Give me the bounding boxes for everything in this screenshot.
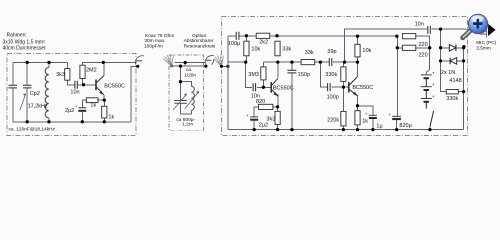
svg-text:3,5mm: 3,5mm <box>476 45 491 51</box>
wire ground column left of main box <box>227 36 229 130</box>
wire 100p to stage3 base <box>332 86 349 88</box>
svg-text:1/20n: 1/20n <box>184 72 196 78</box>
svg-text:1k: 1k <box>108 115 114 121</box>
wire 330k out right lead <box>458 91 463 93</box>
wire tank tap down <box>180 66 182 82</box>
svg-text:220: 220 <box>419 42 428 48</box>
wire top output line <box>345 29 427 62</box>
resistor R 3k3 stage1 <box>65 69 70 81</box>
transistor Q1 BC550C <box>95 80 97 91</box>
diode D2 1N4148 <box>450 58 457 65</box>
svg-text:MIC (PC): MIC (PC) <box>476 40 496 46</box>
wire main bottom rail <box>228 129 464 131</box>
svg-text:10k: 10k <box>251 46 260 52</box>
svg-text:Koax 75 Ohm: Koax 75 Ohm <box>145 33 174 39</box>
resistor R 820 emitter <box>258 104 273 109</box>
wire coax D center to ground column <box>222 65 229 67</box>
svg-text:2µ2: 2µ2 <box>259 123 268 129</box>
transistor Q2 BC550C <box>270 82 272 93</box>
coax connector C at option box exit <box>204 56 214 68</box>
wire 220-1 right corner down <box>416 36 430 48</box>
coax connector D at main box entry (shield fan) <box>214 55 224 66</box>
jack connector MIC 3.5mm <box>465 29 488 37</box>
svg-text:Cp2: Cp2 <box>30 91 40 97</box>
svg-text:33k: 33k <box>282 46 291 52</box>
wire tank top joint <box>181 82 192 101</box>
svg-text:+: + <box>432 83 435 88</box>
wire tank bottom joint <box>181 104 192 114</box>
svg-text:1µ: 1µ <box>376 123 383 129</box>
wire 820 left to 2u2 <box>254 107 258 130</box>
capacitor 2u2 electrolytic stage2 <box>250 116 258 118</box>
wire output column <box>441 29 447 92</box>
svg-text:100µ: 100µ <box>228 41 241 47</box>
svg-text:Abstimmbarer: Abstimmbarer <box>184 38 214 44</box>
capacitor 10n stage1 <box>75 81 77 89</box>
svg-text:+: + <box>432 95 435 100</box>
wire stage2 collector line <box>263 61 301 63</box>
arrow variable capacitor <box>173 95 186 110</box>
wire coax shield riser <box>131 66 136 122</box>
svg-text:Resonanzkreis: Resonanzkreis <box>184 43 216 49</box>
wire Q2 collector <box>277 62 279 78</box>
wire antenna top rail <box>13 61 68 63</box>
svg-text:220: 220 <box>419 53 428 59</box>
option box (dash-dot border) <box>169 55 203 131</box>
wire 330k feedback leads <box>342 62 344 87</box>
capacitor C1 <box>9 85 17 88</box>
node coax D dots <box>220 65 223 68</box>
svg-text:ca.: ca. <box>186 68 192 73</box>
wire 3M3 leads <box>262 62 264 87</box>
wire 33k horizontal right to node A <box>315 61 329 63</box>
svg-text:100pF/m: 100pF/m <box>144 43 163 49</box>
annotation Rahmen text block <box>3 33 47 52</box>
node dots main box <box>245 34 248 37</box>
svg-text:30m max.: 30m max. <box>144 38 165 44</box>
svg-text:2M2: 2M2 <box>86 68 97 74</box>
inductor L1 antenna coil <box>45 68 49 118</box>
svg-text:Option:: Option: <box>192 33 207 39</box>
svg-text:3x10 Wdg 1,5 mm²: 3x10 Wdg 1,5 mm² <box>3 39 46 45</box>
svg-text:BC550C: BC550C <box>273 85 294 91</box>
svg-text:3k3: 3k3 <box>56 72 65 78</box>
svg-text:1k: 1k <box>362 119 368 125</box>
wire input line to stage2 <box>228 62 252 87</box>
arrow variable inductor <box>185 92 199 109</box>
wire 10k2 leads <box>357 36 359 62</box>
node dot on border near jack <box>462 45 465 48</box>
icon magnifier zoom-in <box>463 14 489 38</box>
capacitor 10n stage2 input <box>253 83 256 91</box>
wire 2k2 to V+ rail <box>270 35 277 37</box>
main receiver box (dash-dot border) <box>221 16 467 135</box>
wire Q3 emitter node <box>357 95 359 130</box>
svg-text:40cm Durchmesser: 40cm Durchmesser <box>3 46 47 52</box>
node dots left box <box>26 61 29 64</box>
wire shield return line above <box>174 63 205 67</box>
wire C1 leads <box>12 62 14 121</box>
svg-text:4148: 4148 <box>449 78 461 84</box>
svg-text:BC550C: BC550C <box>352 85 373 91</box>
wire Q1 emitter node <box>103 95 106 122</box>
resistor R 2k2 supply <box>256 33 270 38</box>
frame box Rahmen (dash-dot border) <box>7 54 136 136</box>
capacitor 2u2 electrolytic stage1 <box>78 107 86 109</box>
wire Q2 emitter node <box>273 94 278 130</box>
wire 39p to stage3 collector <box>333 61 358 63</box>
wire ground column right <box>463 48 465 130</box>
svg-text:3k3: 3k3 <box>266 117 275 123</box>
resistor R 220k base <box>341 111 346 126</box>
capacitor Cp2 variable <box>23 85 31 88</box>
annotation Option text block <box>184 33 216 50</box>
wire 100u to node X <box>239 35 256 37</box>
svg-text:2k2: 2k2 <box>259 39 268 45</box>
wire switch to rail <box>429 127 431 130</box>
coax connector B at option box entry (shield fan) <box>163 55 173 66</box>
wire 2M2 leads <box>83 62 104 84</box>
wire battery top jog <box>426 70 429 75</box>
svg-text:33k: 33k <box>305 50 314 56</box>
svg-text:Rahmen:: Rahmen: <box>7 33 27 39</box>
resistor R 220 first <box>402 34 415 39</box>
svg-text:330k: 330k <box>446 96 458 102</box>
svg-text:10n: 10n <box>70 90 79 96</box>
capacitor 1u electrolytic <box>369 114 377 116</box>
wire emitter to 1u cap <box>358 106 373 130</box>
resistor R 10k stage3 collector <box>355 44 360 57</box>
capacitor 100u electrolytic supply <box>236 32 239 40</box>
svg-text:2µ2: 2µ2 <box>65 108 74 114</box>
wire 3k3 to 10n cap <box>67 62 74 84</box>
wire 220 parallel pair column <box>397 36 402 116</box>
wire base node to Q1 <box>78 84 96 86</box>
coax connector A at Rahmen exit <box>135 56 143 68</box>
inductor tank variable <box>191 86 194 110</box>
resistor R 3M3 feedback <box>261 67 266 80</box>
svg-text:820: 820 <box>256 99 265 105</box>
svg-text:2x 1N: 2x 1N <box>441 70 455 76</box>
diode D1 1N4148 <box>449 45 456 52</box>
node tank top dot <box>179 80 182 83</box>
wire 820u lead to rail <box>396 119 398 129</box>
wire V+ feed to 100u <box>228 35 236 37</box>
wire diode row bottom <box>441 60 464 62</box>
resistor R 1k horizontal stage1 <box>86 98 98 103</box>
annotation Koax text block <box>144 33 174 50</box>
wire coax center line through option box <box>172 65 206 67</box>
capacitor 39p <box>329 58 332 66</box>
resistor R 2M2 <box>80 65 85 78</box>
switch power <box>425 102 427 109</box>
capacitor 100p <box>328 83 331 91</box>
resistor R 33k horizontal <box>301 60 315 65</box>
capacitor 820u electrolytic <box>392 115 401 117</box>
svg-text:10k: 10k <box>362 48 371 54</box>
tank circuit wiring <box>181 66 192 114</box>
wire 10n out to jack <box>431 28 464 30</box>
resistor R 330k feedback stage3 <box>341 67 346 82</box>
svg-text:17,2kHz: 17,2kHz <box>28 104 48 110</box>
capacitor tank variable ca 1/20n <box>174 101 187 104</box>
wire 220-2 right lead <box>416 47 430 49</box>
svg-text:10n: 10n <box>415 21 424 27</box>
svg-text:220k: 220k <box>327 118 339 124</box>
trimmer arrow through Cp2 <box>20 95 26 111</box>
node shield join dot <box>184 61 187 64</box>
svg-text:BC550C: BC550C <box>104 84 125 90</box>
resistor R 10k stage2 bias <box>244 41 249 56</box>
resistor R 3k3 emitter <box>275 111 280 124</box>
svg-text:ca. 120nF@18,14kHz: ca. 120nF@18,14kHz <box>9 127 56 133</box>
resistor R 220 second <box>402 45 415 50</box>
wire 220k leads <box>342 87 344 130</box>
capacitor 150p <box>287 70 296 73</box>
svg-text:+: + <box>432 71 435 76</box>
wire 1k horizontal leads <box>82 100 104 107</box>
wire stage2 base <box>257 86 271 88</box>
resistor R 33k stage2 collector <box>275 41 280 56</box>
wire Q1 collector to coax <box>103 62 136 75</box>
wire node A down to 100p <box>320 62 327 87</box>
svg-text:100p: 100p <box>327 94 339 100</box>
svg-text:150p: 150p <box>298 72 310 78</box>
battery cells <box>421 74 432 76</box>
wire V+ rail <box>277 35 397 37</box>
svg-text:1k: 1k <box>90 103 96 109</box>
wire Cp2 leads <box>26 62 28 121</box>
transistor Q3 BC550C <box>348 82 350 93</box>
wire coil leads <box>48 62 50 121</box>
wire diode row top <box>441 47 464 49</box>
svg-text:39p: 39p <box>327 49 336 55</box>
resistor R 330k output load <box>446 90 458 94</box>
capacitor 10n output <box>428 26 431 34</box>
svg-text:820µ: 820µ <box>399 123 412 129</box>
node tank tap dot <box>179 64 182 67</box>
svg-text:1,2m: 1,2m <box>182 121 193 127</box>
wire 10k1 leads <box>245 36 247 62</box>
wire battery top lead <box>429 48 431 70</box>
wire Q3 collector riser <box>357 62 359 77</box>
resistor R 1k vertical stage1 <box>102 106 107 118</box>
wire 150p leads <box>291 62 293 130</box>
resistor R 1k stage3 emitter <box>355 111 360 125</box>
icon play triangle <box>488 24 496 36</box>
wire cap 2u2 lead to rail <box>81 112 83 122</box>
wire bottom rail <box>13 121 131 123</box>
svg-text:330k: 330k <box>325 72 337 78</box>
svg-text:3M3: 3M3 <box>248 72 259 78</box>
